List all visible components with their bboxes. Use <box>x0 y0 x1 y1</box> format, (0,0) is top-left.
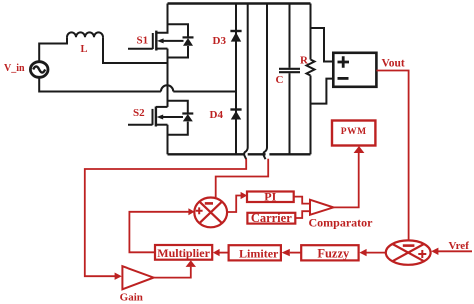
wire sense1 red to gain <box>85 159 246 276</box>
block PWM <box>332 121 375 146</box>
block Multiplier <box>155 245 212 260</box>
svg-text:S1: S1 <box>137 34 149 46</box>
AC source V_in <box>30 62 48 78</box>
transistor S1 (MOSFET with body diode) <box>128 4 194 107</box>
svg-text:L: L <box>81 44 88 55</box>
summing junction SJ2 <box>386 240 431 264</box>
svg-text:Limiter: Limiter <box>239 246 279 260</box>
svg-text:Comparator: Comparator <box>309 215 374 229</box>
wire Fuzzy to Limiter <box>290 252 301 254</box>
wire rail to load box upper <box>311 28 334 62</box>
block PI <box>247 192 294 203</box>
hook current tap 1 <box>244 141 248 160</box>
wire Gain to Multiplier <box>154 267 191 278</box>
svg-text:C: C <box>276 74 284 86</box>
wire comparator to PWM <box>333 153 358 207</box>
diode D3 <box>230 4 241 155</box>
svg-text:R: R <box>300 54 309 66</box>
wire V_in bottom with hop <box>39 78 236 92</box>
wire V_in top lead <box>39 37 67 61</box>
wire sense leg 1 with hook <box>247 4 249 141</box>
gain triangle <box>122 266 153 289</box>
svg-text:Carrier: Carrier <box>251 211 292 225</box>
wire Multiplier to SJ1 <box>129 212 188 253</box>
wire sense2 red to summer <box>216 159 269 198</box>
wire SJ1 to PI <box>227 196 241 213</box>
wire Limiter to Multiplier <box>220 252 229 254</box>
wire SJ2 to Fuzzy <box>367 252 386 254</box>
svg-text:Multiplier: Multiplier <box>157 246 210 260</box>
svg-text:Fuzzy: Fuzzy <box>317 247 350 261</box>
wire load box lower return <box>311 79 334 104</box>
load box output terminals <box>333 53 376 87</box>
wire sense leg 2 with hook <box>266 4 268 141</box>
wire Carrier to comparator <box>295 211 310 218</box>
svg-text:V_in: V_in <box>4 63 25 74</box>
wire bottom rail <box>168 153 311 155</box>
wire inductor to midpoint <box>103 37 168 63</box>
diode D4 <box>230 108 241 110</box>
wire PI to comparator <box>294 197 310 204</box>
summing junction SJ1 <box>194 198 227 228</box>
inductor L <box>67 32 103 37</box>
svg-text:S2: S2 <box>133 107 145 119</box>
wire Vref input <box>438 250 472 252</box>
hook current tap 2 <box>263 141 267 160</box>
capacitor C <box>279 4 300 155</box>
transistor S2 (MOSFET with body diode) <box>128 101 193 155</box>
block Carrier <box>247 213 295 224</box>
svg-text:Vout: Vout <box>382 57 405 69</box>
resistor R <box>307 4 315 155</box>
svg-text:D3: D3 <box>213 35 227 47</box>
comparator triangle <box>310 200 333 215</box>
svg-text:PI: PI <box>264 190 276 204</box>
block Fuzzy <box>301 245 358 260</box>
block Limiter <box>229 245 281 260</box>
svg-text:D4: D4 <box>210 109 224 121</box>
svg-text:Vref: Vref <box>449 240 470 252</box>
svg-text:Gain: Gain <box>120 292 143 304</box>
svg-text:PWM: PWM <box>341 127 367 137</box>
wire Vout feedback <box>376 71 408 241</box>
wire top rail <box>168 2 311 5</box>
